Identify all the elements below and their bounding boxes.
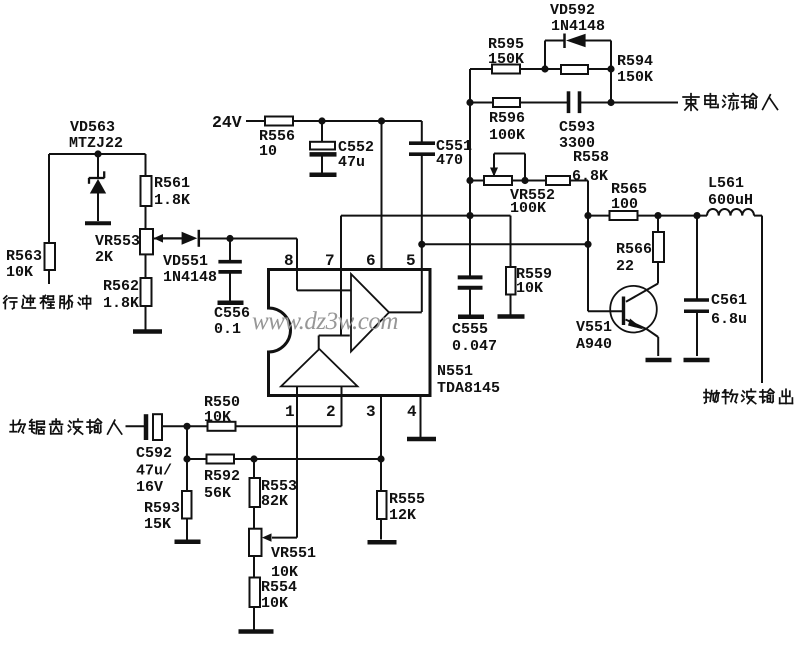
svg-text:R562: R562 [103, 278, 139, 295]
svg-text:6.8K: 6.8K [572, 168, 608, 185]
svg-text:VR553: VR553 [95, 233, 140, 250]
svg-text:47u/: 47u/ [136, 463, 172, 480]
svg-text:VR551: VR551 [271, 545, 316, 562]
svg-text:VD551: VD551 [163, 253, 208, 270]
svg-text:12K: 12K [389, 507, 416, 524]
svg-text:150K: 150K [488, 51, 524, 68]
svg-text:10K: 10K [204, 409, 231, 426]
svg-text:C592: C592 [136, 445, 172, 462]
svg-text:3: 3 [366, 403, 376, 421]
svg-text:2K: 2K [95, 249, 113, 266]
svg-text:L561: L561 [708, 175, 744, 192]
svg-text:470: 470 [436, 152, 463, 169]
svg-text:www.dz3w.com: www.dz3w.com [252, 308, 398, 335]
svg-text:24V: 24V [212, 113, 242, 132]
svg-text:10K: 10K [6, 264, 33, 281]
svg-text:22: 22 [616, 258, 634, 275]
svg-text:100K: 100K [489, 127, 525, 144]
svg-text:VD563: VD563 [70, 119, 115, 136]
svg-text:10: 10 [259, 143, 277, 160]
svg-text:10K: 10K [516, 280, 543, 297]
svg-text:R592: R592 [204, 468, 240, 485]
svg-text:C555: C555 [452, 321, 488, 338]
svg-text:V551: V551 [576, 319, 612, 336]
svg-text:R596: R596 [489, 110, 525, 127]
svg-text:1N4148: 1N4148 [163, 269, 217, 286]
svg-text:1: 1 [285, 403, 295, 421]
svg-text:6.8u: 6.8u [711, 311, 747, 328]
svg-text:R561: R561 [154, 175, 190, 192]
svg-text:C561: C561 [711, 292, 747, 309]
svg-text:6: 6 [366, 252, 376, 270]
svg-text:82K: 82K [261, 493, 288, 510]
svg-text:0.1: 0.1 [214, 321, 241, 338]
svg-text:5: 5 [406, 252, 416, 270]
svg-text:1.8K: 1.8K [154, 192, 190, 209]
svg-text:MTZJ22: MTZJ22 [69, 135, 123, 152]
svg-text:1N4148: 1N4148 [551, 18, 605, 35]
svg-text:R594: R594 [617, 53, 653, 70]
svg-text:8: 8 [284, 252, 294, 270]
svg-text:C593: C593 [559, 119, 595, 136]
svg-text:A940: A940 [576, 336, 612, 353]
svg-text:150K: 150K [617, 69, 653, 86]
svg-text:100: 100 [611, 196, 638, 213]
svg-text:0.047: 0.047 [452, 338, 497, 355]
svg-text:N551: N551 [437, 363, 473, 380]
svg-text:56K: 56K [204, 485, 231, 502]
svg-text:100K: 100K [510, 200, 546, 217]
svg-text:15K: 15K [144, 516, 171, 533]
svg-text:R554: R554 [261, 579, 297, 596]
svg-text:10K: 10K [261, 595, 288, 612]
svg-text:2: 2 [326, 403, 336, 421]
svg-text:16V: 16V [136, 479, 163, 496]
svg-text:1.8K: 1.8K [103, 295, 139, 312]
svg-text:R566: R566 [616, 241, 652, 258]
svg-text:TDA8145: TDA8145 [437, 380, 500, 397]
svg-text:VD592: VD592 [550, 2, 595, 19]
svg-text:R593: R593 [144, 500, 180, 517]
svg-text:7: 7 [325, 252, 335, 270]
svg-text:47u: 47u [338, 154, 365, 171]
svg-text:600uH: 600uH [708, 192, 753, 209]
svg-text:R558: R558 [573, 149, 609, 166]
svg-text:R563: R563 [6, 248, 42, 265]
svg-text:4: 4 [407, 403, 417, 421]
svg-text:R555: R555 [389, 491, 425, 508]
svg-text:C556: C556 [214, 305, 250, 322]
